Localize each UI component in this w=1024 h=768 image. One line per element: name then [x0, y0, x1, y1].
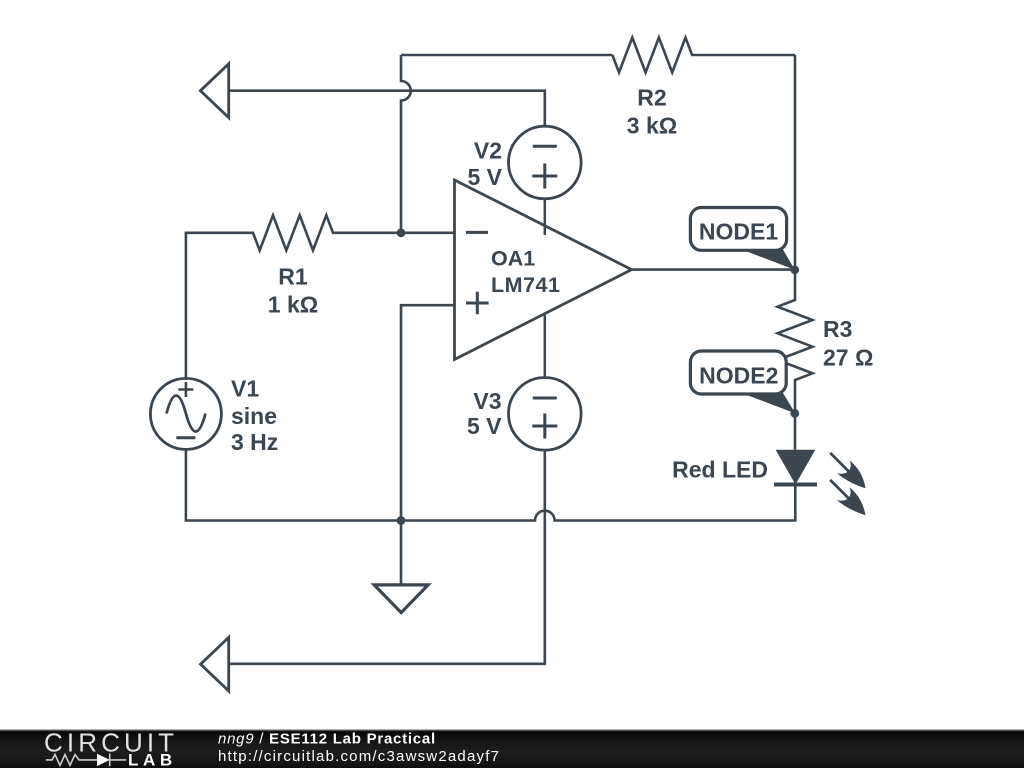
svg-text:nng9 / ESE112 Lab Practical: nng9 / ESE112 Lab Practical [218, 731, 436, 748]
wire NODE2 to LED [794, 413, 797, 449]
source V2 circle [509, 126, 582, 199]
svg-text:http://circuitlab.com/c3awsw2a: http://circuitlab.com/c3awsw2adayf7 [218, 748, 500, 765]
wire non-inverting input to ground junction [401, 305, 455, 520]
top flag [200, 64, 228, 118]
footer bar [0, 729, 1024, 768]
op-amp OA1 triangle [455, 180, 632, 360]
V1 sine symbol [167, 396, 206, 432]
wire bottom with hop over V3 wire [186, 449, 795, 520]
svg-text:3 kΩ: 3 kΩ [627, 113, 677, 139]
V1 plus symbol [178, 382, 193, 397]
logo resistor-diode doodle [46, 754, 127, 767]
NODE1 callout [690, 208, 786, 251]
node junction dot R1/feedback [397, 228, 406, 237]
svg-text:3 Hz: 3 Hz [231, 429, 278, 455]
node NODE2 junction dot [790, 409, 799, 418]
resistor R3 [778, 270, 813, 414]
svg-text:NODE2: NODE2 [699, 362, 778, 388]
svg-text:OA1: OA1 [491, 247, 535, 271]
wire inverting input [401, 232, 455, 235]
source V3 circle [509, 378, 582, 451]
wire top horizontal left segment [401, 54, 612, 57]
node NODE1 junction dot [790, 265, 799, 274]
wire top flag to V2 top [229, 91, 545, 127]
svg-text:V1: V1 [231, 375, 259, 401]
wire V3 bottom to bottom flag [229, 450, 545, 664]
logo diode triangle [97, 754, 110, 766]
svg-text:sine: sine [231, 403, 277, 429]
svg-text:R2: R2 [637, 85, 666, 111]
NODE2 tail [741, 388, 795, 413]
svg-text:LM741: LM741 [491, 273, 560, 297]
svg-text:5 V: 5 V [467, 164, 502, 190]
wire right vertical top [794, 55, 797, 270]
svg-text:R1: R1 [278, 264, 308, 290]
svg-text:27 Ω: 27 Ω [823, 344, 873, 370]
V3 plus symbol [532, 414, 557, 439]
op-amp minus symbol [466, 231, 488, 234]
resistor R2 [612, 38, 795, 73]
op-amp V+ power stub [544, 199, 547, 235]
bottom flag [201, 637, 229, 691]
op-amp output wire [632, 268, 795, 271]
svg-text:1 kΩ: 1 kΩ [268, 291, 318, 317]
svg-text:NODE1: NODE1 [699, 219, 778, 245]
op-amp plus symbol [466, 292, 489, 315]
node junction dot ground [397, 516, 406, 525]
svg-text:Red LED: Red LED [672, 457, 768, 483]
svg-text:V3: V3 [473, 388, 501, 414]
V2 minus symbol [533, 145, 557, 148]
ground [374, 585, 428, 613]
op-amp V- power stub [544, 315, 547, 377]
LED light arrow 1 [824, 447, 872, 495]
LED light arrow 2 [823, 474, 871, 522]
NODE1 tail [741, 245, 795, 270]
wire ground stub [400, 521, 403, 585]
svg-text:V2: V2 [474, 137, 502, 163]
svg-text:LAB: LAB [128, 751, 177, 768]
V3 minus symbol [533, 397, 557, 400]
svg-text:5 V: 5 V [467, 413, 502, 439]
V2 plus symbol [532, 164, 557, 189]
wire V1 top and resistor R1 [186, 215, 401, 378]
source V1 circle [150, 378, 221, 449]
LED cathode bar [774, 483, 817, 487]
LED diode triangle [776, 450, 816, 485]
V1 minus symbol [176, 436, 195, 439]
wire feedback vertical with hop over flag wire [401, 55, 411, 233]
svg-text:R3: R3 [823, 316, 852, 342]
NODE2 callout [690, 351, 786, 394]
